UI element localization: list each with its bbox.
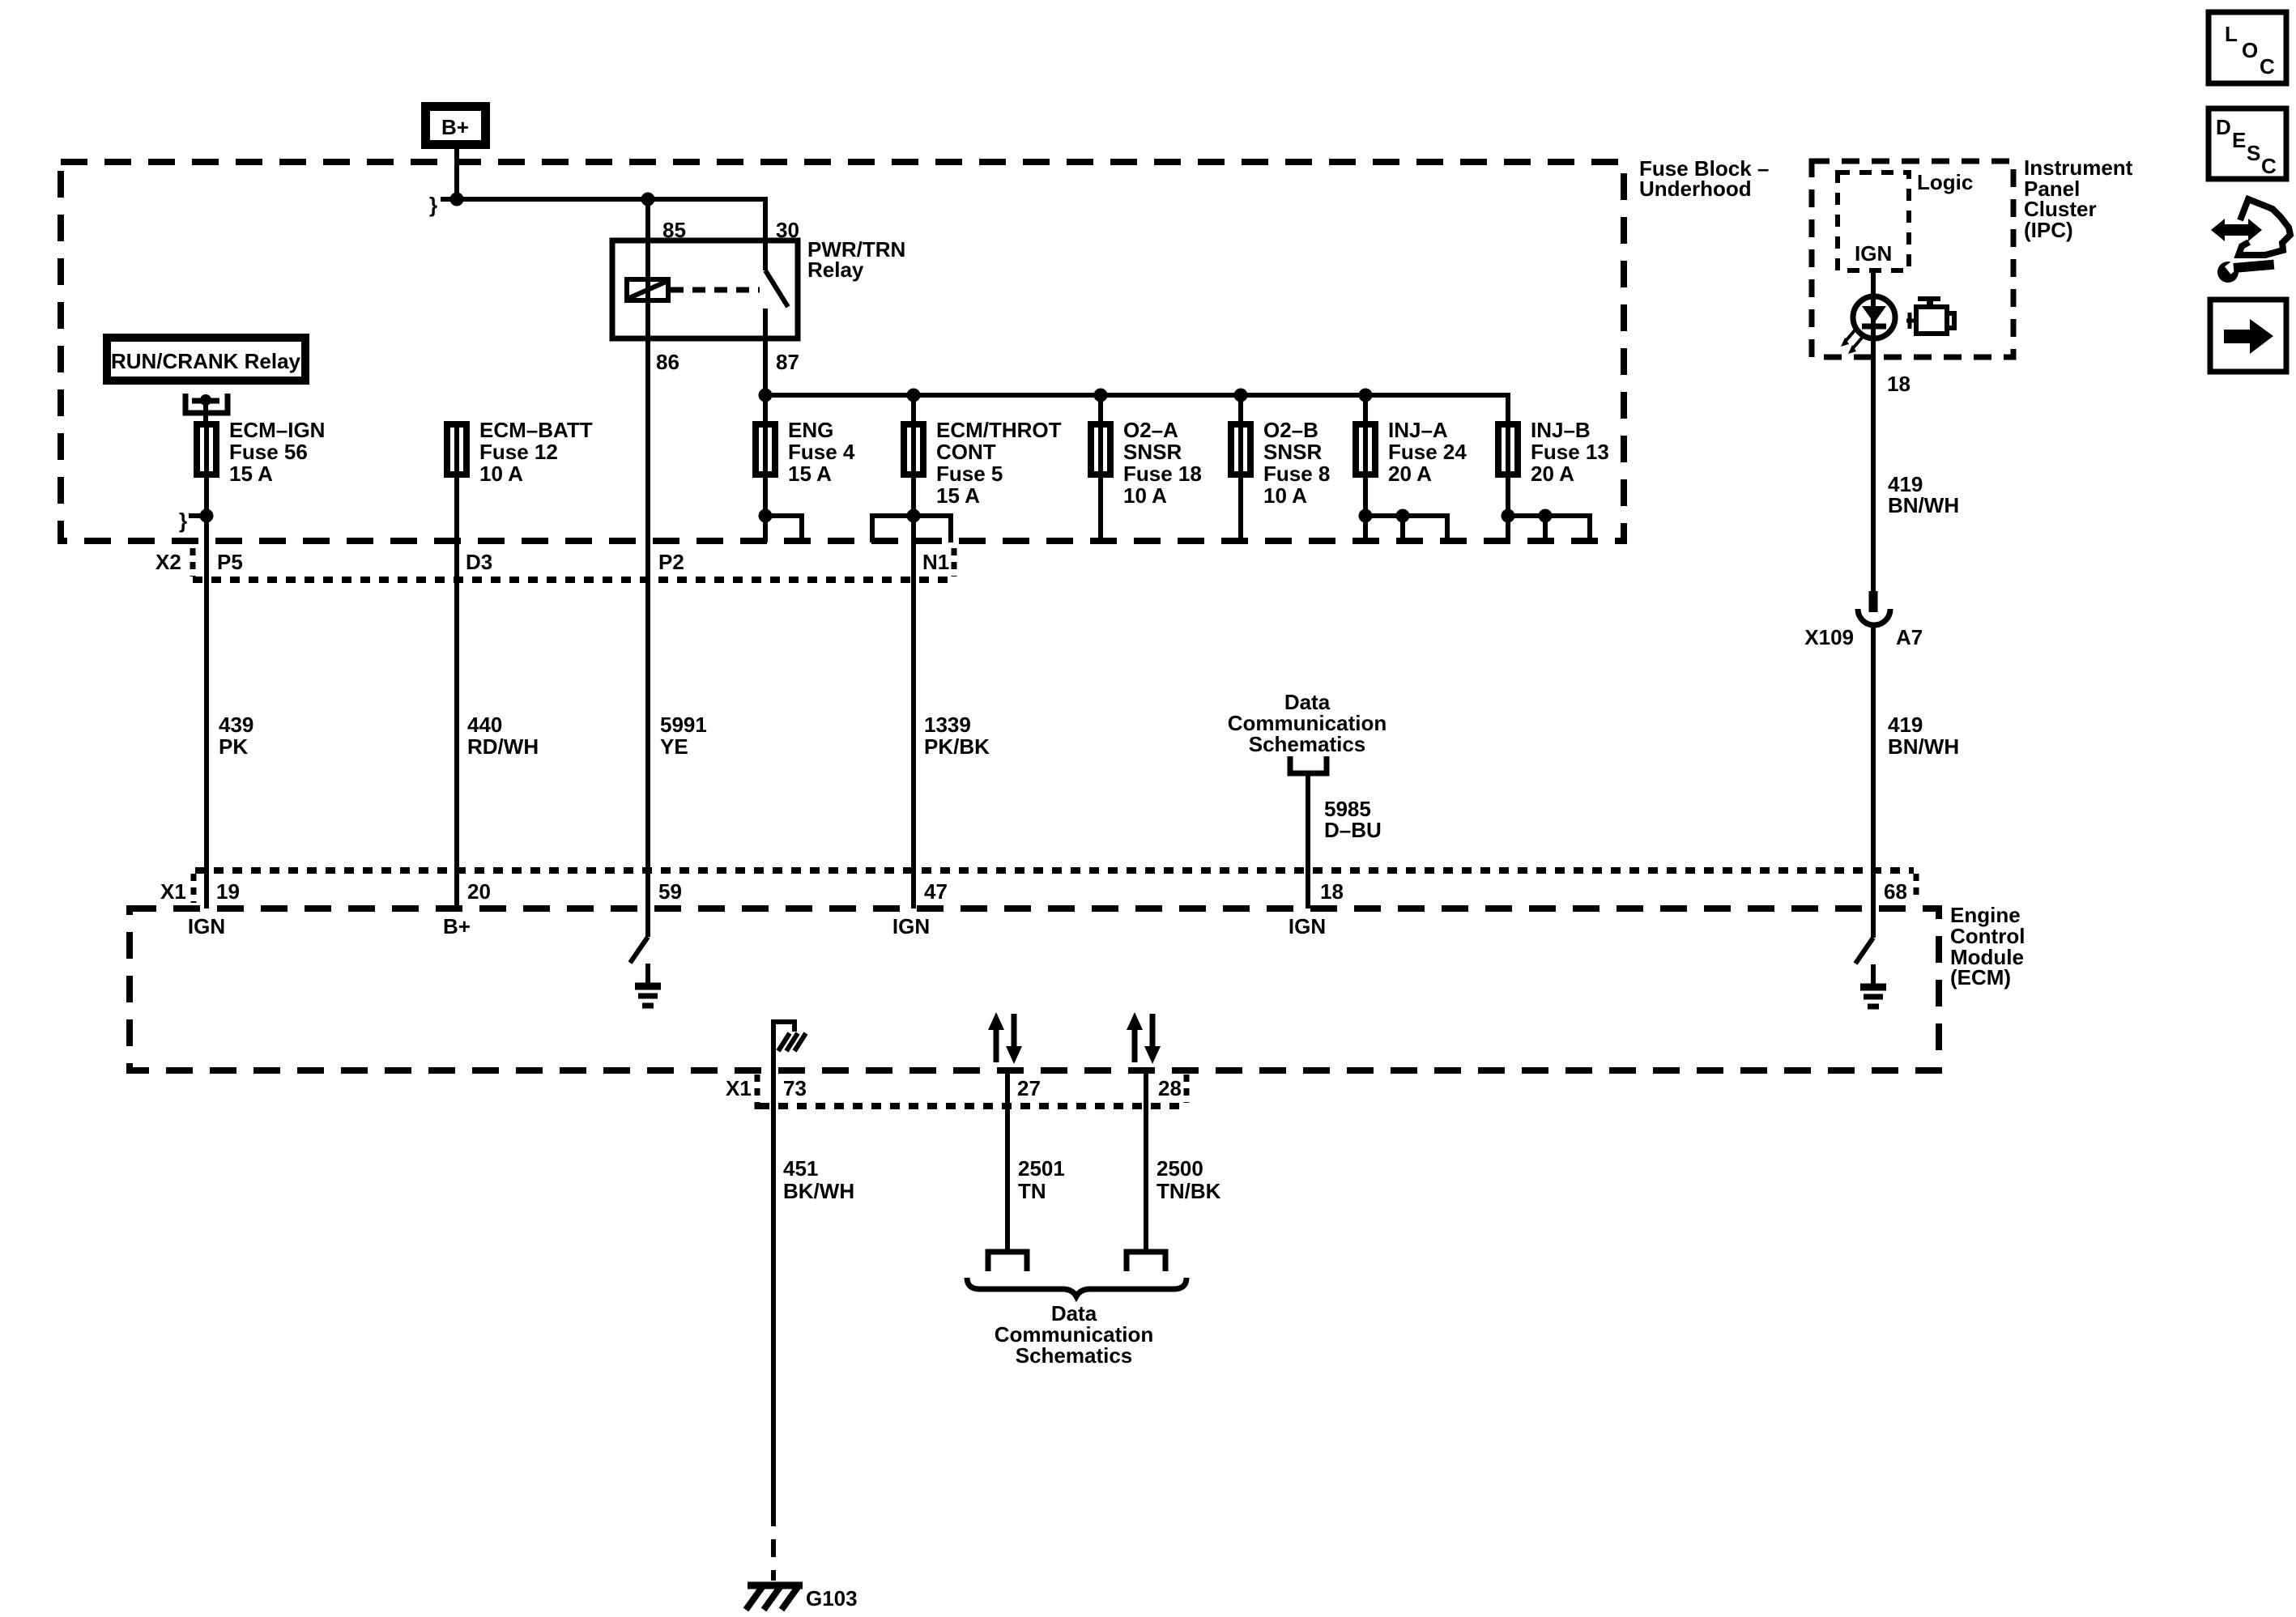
svg-text:L: L [2225, 22, 2238, 46]
svg-text:28: 28 [1158, 1076, 1182, 1100]
node bus at INJ-A [1359, 389, 1373, 402]
fuse ECM-IGN Fuse 56 [194, 418, 325, 486]
svg-text:ECM–IGN: ECM–IGN [229, 418, 325, 442]
relay coil symbol [627, 279, 668, 300]
svg-text:Logic: Logic [1917, 170, 1973, 194]
svg-text:O: O [2242, 38, 2258, 62]
svg-text:X109: X109 [1804, 625, 1854, 649]
fuse ENG Fuse 4 [752, 418, 855, 486]
svg-text:SNSR: SNSR [1123, 440, 1182, 464]
svg-text:Fuse 5: Fuse 5 [936, 462, 1003, 486]
svg-text:18: 18 [1887, 372, 1910, 396]
fuse INJ-B Fuse 13 [1495, 418, 1609, 486]
relay PWR/TRN box [612, 240, 798, 338]
fuse ECM-BATT Fuse 12 [444, 418, 593, 486]
svg-text:}: } [429, 193, 437, 217]
wire 451 hook inside ECM [773, 1022, 794, 1070]
svg-text:Fuse 13: Fuse 13 [1531, 440, 1609, 464]
wire label 451 BK/WH [783, 1156, 854, 1203]
svg-text:59: 59 [658, 879, 682, 904]
icon box LOC [2209, 12, 2286, 83]
fuse block underhood dashed box [61, 162, 1624, 541]
svg-text:X1: X1 [160, 879, 186, 904]
connector X1 row dotted line [195, 867, 1914, 874]
svg-text:D–BU: D–BU [1324, 818, 1382, 842]
instrument panel cluster dashed box [1812, 161, 2013, 357]
svg-text:19: 19 [216, 879, 240, 904]
relay coil-switch dashed link [671, 287, 760, 293]
wire relay coil pin 85 [645, 199, 650, 279]
node bus at O2-B [1234, 389, 1248, 402]
LED indicator [1853, 296, 1895, 339]
svg-text:20 A: 20 A [1531, 462, 1574, 486]
wire 419 upper [1871, 357, 1876, 594]
svg-text:30: 30 [776, 218, 799, 242]
svg-text:PK: PK [219, 734, 248, 759]
fuse O2-A SNSR Fuse 18 [1088, 418, 1202, 508]
svg-text:Fuse 56: Fuse 56 [229, 440, 308, 464]
data communication schematics callout (top) [1228, 690, 1387, 773]
wire logic to LED [1871, 270, 1876, 296]
power symbol B+ box [421, 102, 490, 149]
svg-text:P2: P2 [658, 550, 684, 574]
svg-text:15 A: 15 A [788, 462, 832, 486]
wire label 440 RD/WH [467, 713, 539, 759]
wire bus drop to ECM/THROT fuse [911, 395, 916, 421]
svg-text:RD/WH: RD/WH [467, 734, 539, 759]
wire label 5985 D-BU [1324, 797, 1382, 842]
icon data exchange vehicle [2211, 199, 2290, 255]
svg-text:E: E [2232, 128, 2246, 152]
svg-text:27: 27 [1017, 1076, 1041, 1100]
svg-text:ENG: ENG [788, 418, 833, 442]
inline connector X109 A7 [1858, 591, 1890, 625]
wire ECM-IGN fuse output [204, 478, 209, 908]
wire label 439 PK [219, 713, 253, 759]
svg-text:Fuse 4: Fuse 4 [788, 440, 855, 464]
svg-text:10 A: 10 A [1123, 483, 1167, 508]
connector X1 bottom left separator [755, 1074, 760, 1109]
wire 451 BK/WH [771, 1070, 776, 1508]
svg-text:IGN: IGN [892, 914, 930, 938]
svg-text:15 A: 15 A [229, 462, 273, 486]
svg-text:10 A: 10 A [479, 462, 523, 486]
icon box DESC [2209, 109, 2286, 179]
svg-text:Schematics: Schematics [1016, 1343, 1133, 1368]
svg-text:Fuse 18: Fuse 18 [1123, 462, 1202, 486]
svg-text:20: 20 [467, 879, 491, 904]
engine icon [1906, 296, 1954, 334]
svg-text:5991: 5991 [660, 713, 707, 737]
svg-text:N1: N1 [922, 550, 949, 574]
node bus at O2-A [1094, 389, 1108, 402]
connector X1 bottom row dotted line [760, 1103, 1186, 1109]
relay name label [807, 237, 905, 282]
wire ECM-BATT fuse output to pin 20 [454, 478, 459, 908]
svg-text:PK/BK: PK/BK [924, 734, 990, 759]
wire 2500 TN/BK [1144, 1070, 1148, 1252]
fuse ECM/THROT CONT Fuse 5 [901, 418, 1062, 508]
svg-text:451: 451 [783, 1156, 818, 1181]
svg-text:85: 85 [662, 218, 686, 242]
wire bus drop to INJ-A fuse [1363, 395, 1368, 421]
svg-text:B+: B+ [441, 115, 469, 139]
icon wrench [2217, 259, 2274, 283]
svg-text:IGN: IGN [188, 914, 225, 938]
wire 2501 TN [1005, 1070, 1010, 1252]
svg-text:1339: 1339 [924, 713, 971, 737]
svg-text:TN/BK: TN/BK [1157, 1179, 1221, 1203]
terminal at 2501 [988, 1252, 1027, 1271]
svg-text:18: 18 [1320, 879, 1344, 904]
connector X1 left separator [191, 874, 197, 903]
wire bus drop to O2-B fuse [1238, 395, 1243, 421]
serial data arrows at pin 28 [1127, 1012, 1161, 1064]
wire label 419 BN/WH upper [1888, 472, 1959, 517]
svg-text:Schematics: Schematics [1249, 732, 1366, 756]
svg-text:ECM–BATT: ECM–BATT [479, 418, 593, 442]
connector X2 left separator [190, 548, 196, 577]
icon box forward arrow [2210, 300, 2286, 372]
switch to ground at pin 59 [630, 937, 648, 983]
svg-text:Fuse 24: Fuse 24 [1388, 440, 1467, 464]
connector X2 row dotted line [193, 577, 954, 583]
wire label 2500 TN/BK [1157, 1156, 1221, 1203]
ground symbol at pin 59 [635, 986, 661, 1006]
fuse block label [1639, 156, 1769, 201]
connector X1 bottom right separator [1184, 1074, 1190, 1103]
wire feed to PWR/TRN relay (horizontal) [441, 199, 765, 240]
svg-text:2501: 2501 [1018, 1156, 1065, 1181]
LED light arrows [1841, 330, 1863, 354]
wire clip tie [189, 513, 204, 518]
RUN/CRANK Relay label box [103, 334, 309, 385]
terminal at 2500 [1127, 1252, 1165, 1271]
wire 419 at pin 68 into ECM [1871, 908, 1876, 938]
node junction B+/feed [450, 193, 464, 206]
fuse O2-B SNSR Fuse 8 [1228, 418, 1330, 508]
svg-text:Fuse 8: Fuse 8 [1263, 462, 1330, 486]
svg-text:D3: D3 [466, 550, 492, 574]
svg-text:IGN: IGN [1855, 241, 1892, 266]
svg-text:68: 68 [1884, 879, 1907, 904]
bus wire from relay 87 feeding fuses [765, 395, 1508, 421]
wire INJ-B fuse output terminal [1502, 478, 1591, 543]
RUN/CRANK relay contact symbol [185, 394, 228, 421]
fuse INJ-A Fuse 24 [1352, 418, 1467, 486]
ECM dashed box [130, 908, 1939, 1070]
svg-text:439: 439 [219, 713, 253, 737]
wire 419 lower [1871, 627, 1876, 908]
wire O2-A fuse output [1098, 478, 1103, 543]
svg-text:X1: X1 [726, 1076, 752, 1100]
svg-text:BK/WH: BK/WH [783, 1179, 854, 1203]
wire 451 dashed tail [771, 1508, 776, 1581]
wire label 5991 YE [660, 713, 707, 759]
wire O2-B fuse output [1238, 478, 1243, 543]
svg-text:BN/WH: BN/WH [1888, 493, 1959, 517]
node ECM-IGN output [200, 509, 214, 523]
svg-text:(ECM): (ECM) [1950, 965, 2011, 989]
data communication schematics label (bottom) [995, 1301, 1153, 1368]
svg-text:O2–B: O2–B [1263, 418, 1318, 442]
svg-text:87: 87 [776, 350, 799, 374]
svg-text:10 A: 10 A [1263, 483, 1307, 508]
svg-text:440: 440 [467, 713, 502, 737]
svg-text:D: D [2216, 115, 2231, 139]
svg-text:X2: X2 [155, 550, 181, 574]
ground symbol at pin 68 [1860, 987, 1886, 1006]
node bus at ECM/THROT [907, 389, 921, 402]
svg-text:}: } [179, 509, 187, 533]
relay switch contact 30/87 [765, 240, 788, 338]
chassis ground marks at 451 hook [778, 1033, 806, 1051]
svg-text:15 A: 15 A [936, 483, 980, 508]
brace data communication [967, 1278, 1186, 1296]
wire coil 86 down to pin 59 [645, 300, 650, 937]
wire label 1339 PK/BK [924, 713, 990, 759]
svg-text:TN: TN [1018, 1179, 1046, 1203]
svg-text:G103: G103 [806, 1586, 858, 1611]
svg-text:73: 73 [783, 1076, 807, 1100]
ground G103 symbol [746, 1584, 803, 1610]
wire bus drop to O2-A fuse [1098, 395, 1103, 421]
svg-text:47: 47 [924, 879, 948, 904]
wire label 2501 TN [1018, 1156, 1065, 1203]
wire 5985 [1306, 773, 1310, 908]
connector X2 right separator [952, 548, 957, 577]
svg-text:O2–A: O2–A [1123, 418, 1178, 442]
svg-text:INJ–B: INJ–B [1531, 418, 1591, 442]
wire relay 87 down to ENG fuse [763, 338, 768, 421]
svg-text:INJ–A: INJ–A [1388, 418, 1448, 442]
wire LED to IPC pin 18 [1871, 339, 1876, 357]
wire B+ down into fuse block [454, 149, 459, 199]
svg-text:CONT: CONT [936, 440, 996, 464]
wire ECM/THROT output to pin 47 [911, 478, 916, 908]
svg-text:Fuse 12: Fuse 12 [479, 440, 558, 464]
wire ENG fuse output terminal [759, 478, 803, 543]
switch to ground at pin 68 [1855, 938, 1873, 984]
IPC label [2024, 155, 2133, 242]
serial data arrows at pin 27 [988, 1012, 1022, 1064]
svg-text:2500: 2500 [1157, 1156, 1203, 1181]
svg-text:ECM/THROT: ECM/THROT [936, 418, 1062, 442]
wire INJ-A fuse output terminal [1359, 478, 1448, 543]
node bus at ENG [759, 389, 773, 402]
connector X1 right separator [1914, 874, 1919, 900]
svg-text:20 A: 20 A [1388, 462, 1432, 486]
svg-text:419: 419 [1888, 713, 1923, 737]
svg-text:(IPC): (IPC) [2024, 218, 2073, 242]
svg-text:C: C [2261, 154, 2277, 178]
svg-text:IGN: IGN [1289, 914, 1326, 938]
svg-text:Underhood: Underhood [1639, 177, 1752, 201]
svg-text:86: 86 [656, 350, 679, 374]
svg-text:P5: P5 [217, 550, 243, 574]
wire ECM/THROT fuse output terminal [872, 509, 951, 543]
svg-text:YE: YE [660, 734, 688, 759]
svg-text:BN/WH: BN/WH [1888, 734, 1959, 759]
logic dashed box [1838, 172, 1909, 270]
svg-text:B+: B+ [443, 914, 471, 938]
svg-text:S: S [2247, 141, 2260, 165]
svg-text:C: C [2260, 54, 2275, 79]
node junction coil 85 [641, 193, 655, 206]
wire label 419 BN/WH lower [1888, 713, 1959, 759]
svg-text:Relay: Relay [807, 257, 864, 282]
svg-text:RUN/CRANK Relay: RUN/CRANK Relay [111, 349, 301, 373]
ECM label [1950, 903, 2025, 989]
svg-text:SNSR: SNSR [1263, 440, 1322, 464]
svg-text:A7: A7 [1896, 625, 1923, 649]
